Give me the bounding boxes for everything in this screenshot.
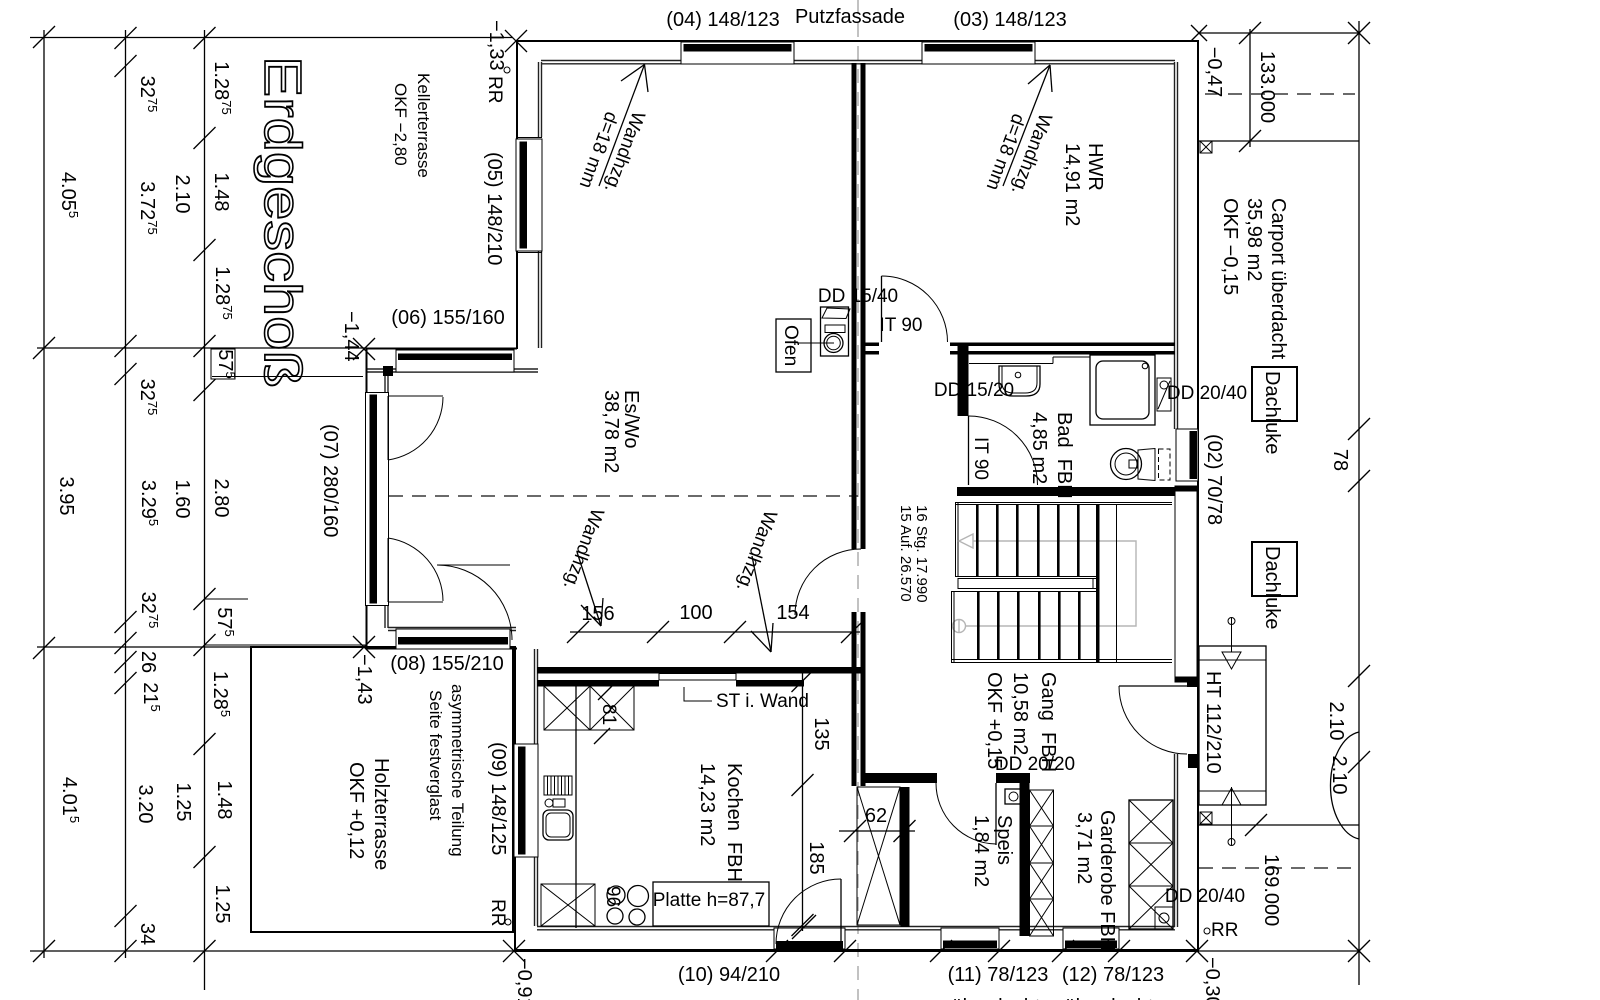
- extension line top: [30, 37, 512, 39]
- window (11): [941, 928, 999, 949]
- door HWR IT90: swing arc: [882, 276, 948, 342]
- Bad radiator: [1157, 378, 1171, 411]
- svg-text:DD 20/40: DD 20/40: [1165, 886, 1245, 907]
- svg-text:1,84 m2: 1,84 m2: [970, 815, 992, 887]
- svg-text:26: 26: [137, 651, 159, 673]
- svg-text:15 Auf. 26.570: 15 Auf. 26.570: [897, 505, 914, 602]
- wall: bottom exterior outer face: [514, 949, 1199, 952]
- svg-text:überdacht: überdacht: [1065, 996, 1154, 1000]
- svg-text:überdacht: überdacht: [952, 996, 1041, 1000]
- svg-text:(11) 78/123: (11) 78/123: [948, 964, 1049, 986]
- door EsWo-Gang: swing arc: [795, 549, 861, 615]
- arrow Wandhzg top-right: [1003, 65, 1050, 186]
- Garderobe corner box with circle: [1155, 907, 1173, 929]
- wall: top exterior inner face (heating layer): [541, 60, 1175, 62]
- svg-text:14,23 m2: 14,23 m2: [696, 763, 718, 846]
- wall: kitchen north bottom line mid: [736, 680, 804, 687]
- svg-text:169.000: 169.000: [1260, 854, 1282, 926]
- svg-text:34: 34: [136, 923, 158, 945]
- box around 57-5 dim: [211, 349, 235, 379]
- Holzterrasse outline: [251, 647, 513, 932]
- wall: center spine west line: [852, 63, 857, 549]
- svg-text:Seite festverglast: Seite festverglast: [426, 690, 445, 821]
- extension line y647: [37, 646, 251, 648]
- wall: Gang south wall: [861, 773, 937, 783]
- corner tick bottom-left: [503, 940, 525, 962]
- door (08): open leaf: [437, 564, 510, 566]
- svg-text:1.25: 1.25: [211, 885, 233, 924]
- svg-text:Dachluke: Dachluke: [1261, 546, 1283, 629]
- wall: kitchen west inner face: [534, 649, 536, 926]
- svg-text:154: 154: [776, 602, 809, 624]
- wall anchor box right y812: [1200, 812, 1212, 824]
- svg-text:DD 20/20: DD 20/20: [995, 754, 1075, 775]
- stove burners: [607, 886, 625, 904]
- window/door (08): [396, 629, 510, 649]
- dimension chain line 3 left: [204, 30, 206, 990]
- svg-text:10,58 m2: 10,58 m2: [1009, 672, 1031, 755]
- svg-text:3.20: 3.20: [134, 785, 156, 824]
- door Bad IT90: swing arc: [969, 416, 1038, 485]
- Bad shower: [1090, 355, 1155, 425]
- carport line y825: [1199, 824, 1359, 826]
- Dachluke box 2: [1252, 542, 1297, 596]
- entrance door jambs: [1187, 682, 1198, 687]
- ST opening outline: [659, 674, 736, 681]
- arrow Wandhzg kitchen left: [577, 552, 601, 626]
- stairs: upper treads: [976, 504, 979, 577]
- svg-text:Speis: Speis: [993, 815, 1015, 865]
- top right chain line: [1199, 32, 1359, 34]
- doors (07) french: lower arc: [388, 538, 443, 601]
- window (02) right: [1176, 429, 1198, 481]
- door (10) threshold: [774, 928, 845, 949]
- window (03) top: [922, 42, 1035, 64]
- Platte box: [653, 882, 769, 926]
- svg-text:16 Stg. 17.990: 16 Stg. 17.990: [913, 505, 930, 603]
- svg-text:−1,43: −1,43: [353, 654, 375, 705]
- chimney flue block: [821, 307, 849, 356]
- svg-text:Bad FBH: Bad FBH: [1053, 412, 1075, 499]
- stairs: right stringer: [1096, 504, 1100, 662]
- door entrance HT: leaf: [1119, 685, 1187, 687]
- wall: (07) west wall outer face: [366, 348, 368, 649]
- wall: bottom inner face: [537, 926, 1175, 928]
- stairs: top edge: [955, 502, 1172, 504]
- doors (07) french: lower leaf: [387, 538, 389, 602]
- dashed carport line y94: [1205, 93, 1355, 95]
- Ofen leader line: [799, 342, 834, 344]
- svg-text:38,78 m2: 38,78 m2: [600, 390, 622, 473]
- HT entry steps box: [1199, 646, 1266, 805]
- svg-text:4,85 m2: 4,85 m2: [1028, 412, 1050, 484]
- inner corner notch at (06)/(07): [383, 366, 393, 376]
- vertical section dashed line: [857, 0, 859, 1000]
- bottom chain line: [30, 950, 1359, 952]
- wall anchor box right y141: [1200, 141, 1212, 153]
- entrance sidelight right: [1175, 486, 1197, 682]
- wall: (06) inner face: [366, 368, 538, 370]
- kitchen sink bowl: [543, 810, 573, 840]
- svg-text:−0,91: −0,91: [513, 958, 535, 1000]
- chain line 133.000: [1249, 29, 1251, 147]
- wall: right exterior outer face: [1197, 40, 1199, 951]
- svg-text:Holzterrasse: Holzterrasse: [370, 758, 392, 870]
- window (09): [514, 744, 538, 857]
- dim line shaft 62: [839, 830, 915, 832]
- carport right boundary chain line: [1358, 21, 1360, 985]
- extension line y348: [37, 347, 366, 349]
- svg-text:1.48: 1.48: [210, 173, 232, 212]
- corner tick top-left: [505, 30, 527, 52]
- svg-text:Es/Wo: Es/Wo: [620, 390, 642, 449]
- stairs: lower treads: [977, 592, 980, 660]
- door entrance HT: swing arc: [1119, 686, 1187, 754]
- stairs: upper flight bottom edge: [955, 576, 1099, 578]
- svg-text:Kellerterrasse: Kellerterrasse: [414, 73, 433, 178]
- svg-text:133.000: 133.000: [1256, 51, 1278, 123]
- svg-text:156: 156: [581, 603, 614, 625]
- Bad toilet bowl: [1111, 449, 1142, 480]
- kitchen counter edge: [575, 684, 577, 928]
- stairs: bottom edge: [951, 659, 1172, 661]
- svg-text:2.10: 2.10: [1325, 702, 1347, 741]
- svg-text:IT 90: IT 90: [970, 437, 991, 480]
- svg-text:81: 81: [598, 704, 619, 725]
- Dachluke box 1: [1252, 367, 1297, 421]
- svg-text:2.10: 2.10: [171, 175, 193, 214]
- svg-text:OKF −0,15: OKF −0,15: [1219, 198, 1241, 295]
- stairs: left edge upper: [955, 502, 957, 577]
- dim line gang vertical: [802, 672, 804, 931]
- svg-text:−0,30: −0,30: [1201, 957, 1223, 1000]
- wall: Bad south / stair top wall: [957, 487, 1175, 496]
- dimension chain line 2 left: [125, 30, 127, 958]
- Bad cistern dashed: [1159, 449, 1171, 480]
- door Speis: swing arc: [936, 783, 996, 844]
- carport line y141: [1199, 140, 1359, 142]
- wall: (07) inner face: [384, 372, 386, 628]
- arrow Wandhzg kitchen right: [752, 556, 771, 652]
- svg-text:Ofen: Ofen: [780, 325, 801, 366]
- stairs: middle rail: [958, 579, 1099, 589]
- svg-text:Putzfassade: Putzfassade: [795, 6, 905, 28]
- door HWR IT90: leaf: [881, 276, 883, 342]
- svg-text:14,91 m2: 14,91 m2: [1061, 143, 1083, 226]
- svg-text:(08) 155/210: (08) 155/210: [390, 653, 503, 675]
- wall: top exterior outer face: [516, 40, 1199, 42]
- extension line y376: [212, 376, 363, 378]
- wall: (08) south wall outer face: [366, 648, 517, 650]
- svg-text:asymmetrische Teilung: asymmetrische Teilung: [448, 684, 467, 857]
- wall: kitchen west outer face: [514, 646, 516, 950]
- svg-text:Dachluke: Dachluke: [1261, 371, 1283, 454]
- svg-text:(05) 148/210: (05) 148/210: [483, 152, 505, 265]
- stairs: lower flight top edge: [951, 591, 1099, 593]
- door (10): leaf: [840, 879, 842, 944]
- window (06): [396, 350, 514, 372]
- svg-text:(03) 148/123: (03) 148/123: [953, 9, 1066, 31]
- door (10): tick: [792, 915, 816, 939]
- Bad toilet tank: [1138, 449, 1155, 481]
- wall: left exterior upper outer face: [516, 40, 518, 349]
- window (04) top: [681, 42, 794, 64]
- svg-text:135: 135: [810, 717, 832, 750]
- kitchen sink drainer: [544, 776, 572, 795]
- svg-text:Platte h=87,7: Platte h=87,7: [653, 890, 766, 911]
- svg-text:1.60: 1.60: [171, 480, 193, 519]
- svg-text:DD 15/40: DD 15/40: [818, 286, 898, 307]
- window (07) tall: [366, 393, 389, 606]
- svg-text:(12) 78/123: (12) 78/123: [1062, 964, 1164, 986]
- svg-text:(09) 148/125: (09) 148/125: [487, 742, 509, 855]
- horizontal section dashed line in Es/Wo: [389, 495, 858, 497]
- Bad washbasin: [999, 366, 1040, 396]
- wall: (08) inner face: [388, 627, 516, 629]
- svg-text:Garderobe FBH: Garderobe FBH: [1096, 810, 1118, 951]
- door Bad IT90: leaf: [968, 416, 970, 485]
- kitchen top cabinet X boxes: [544, 686, 590, 730]
- shaft with X: [857, 787, 900, 925]
- svg-text:RR: RR: [1211, 920, 1238, 941]
- wall: kitchen north bottom line west: [537, 680, 659, 687]
- dim line kitchen top: [570, 631, 860, 633]
- svg-text:IT 90: IT 90: [880, 315, 923, 336]
- wall: Speis east wall: [1020, 783, 1030, 936]
- door Speis: leaf: [995, 783, 997, 845]
- svg-text:96: 96: [602, 886, 623, 907]
- svg-text:78: 78: [1329, 449, 1351, 471]
- wall: left upper inner face: [538, 62, 540, 137]
- Ofen box: [776, 319, 811, 372]
- svg-text:HWR: HWR: [1084, 143, 1106, 191]
- arrow Wandhzg top-left: [599, 65, 645, 187]
- wall: Bad west wall: [958, 346, 969, 416]
- wall: right inner face: [1174, 62, 1176, 429]
- svg-text:(06) 155/160: (06) 155/160: [391, 307, 504, 329]
- svg-text:−0,47: −0,47: [1203, 47, 1225, 98]
- arc on right chain: [1330, 732, 1359, 839]
- corner tick (06)/(07): [353, 338, 375, 360]
- wall: HWR south wall: [865, 343, 879, 347]
- svg-text:(04) 148/123: (04) 148/123: [666, 9, 779, 31]
- wall: center spine east line: [861, 63, 866, 549]
- svg-text:OKF −2,80: OKF −2,80: [391, 83, 410, 166]
- corner tick (07)/(08): [353, 636, 375, 658]
- door (10): swing arc: [776, 879, 841, 944]
- window (12): [1063, 928, 1119, 949]
- svg-text:HT 112/210: HT 112/210: [1202, 671, 1224, 774]
- svg-text:−1,33: −1,33: [485, 20, 507, 71]
- svg-text:RR: RR: [484, 76, 505, 103]
- doors (07) french: upper arc: [388, 397, 443, 460]
- svg-text:DD 20/40: DD 20/40: [1167, 383, 1247, 404]
- svg-text:185: 185: [805, 841, 827, 874]
- svg-text:62: 62: [865, 805, 887, 827]
- svg-text:Kochen FBH: Kochen FBH: [723, 763, 745, 882]
- corner tick bottom-right: [1186, 940, 1208, 962]
- svg-text:Erdgeschoß: Erdgeschoß: [253, 56, 311, 388]
- extension line y645: [204, 644, 366, 646]
- dimension chain line 1 left: [43, 30, 45, 958]
- svg-text:(07) 280/160: (07) 280/160: [319, 424, 341, 537]
- bottom chain ticks: [766, 940, 788, 962]
- stairs: left edge lower: [951, 591, 953, 662]
- svg-text:OKF +0,12: OKF +0,12: [345, 762, 367, 859]
- svg-text:100: 100: [679, 602, 712, 624]
- Speis shelf lattice: [1030, 790, 1054, 936]
- doors (07) french: upper leaf: [387, 396, 389, 460]
- svg-text:3,71 m2: 3,71 m2: [1073, 812, 1095, 884]
- kitchen faucet: [545, 799, 553, 807]
- svg-text:2.80: 2.80: [210, 479, 232, 518]
- door (08): swing arc: [437, 565, 512, 640]
- wall: (06) step wall outer face: [366, 348, 517, 350]
- svg-text:1.25: 1.25: [172, 783, 194, 822]
- HT flow line and arrows: [1231, 618, 1233, 652]
- kitchen bottom cabinet X box: [541, 884, 595, 926]
- svg-text:Carport überdacht: Carport überdacht: [1267, 198, 1289, 360]
- window (05) left: [516, 139, 542, 251]
- svg-text:(02) 70/78: (02) 70/78: [1203, 434, 1225, 525]
- stairs: walk line: [966, 541, 1136, 626]
- wall: kitchen north top line: [537, 667, 862, 674]
- wall: Speis west wall: [901, 787, 910, 927]
- svg-text:35,98 m2: 35,98 m2: [1243, 198, 1265, 281]
- svg-text:ST i. Wand: ST i. Wand: [716, 691, 809, 712]
- svg-text:1.48: 1.48: [213, 781, 235, 820]
- svg-text:(10) 94/210: (10) 94/210: [678, 964, 780, 986]
- extension line y599: [204, 598, 248, 600]
- svg-text:3.95: 3.95: [55, 477, 77, 516]
- Bad vanity counter: [969, 363, 1053, 365]
- stairs: landing divider: [1116, 504, 1118, 662]
- dashed carport line y868: [1199, 867, 1355, 869]
- duct box at Speis door: [1005, 789, 1022, 804]
- Garderobe wardrobe lattice: [1129, 800, 1173, 929]
